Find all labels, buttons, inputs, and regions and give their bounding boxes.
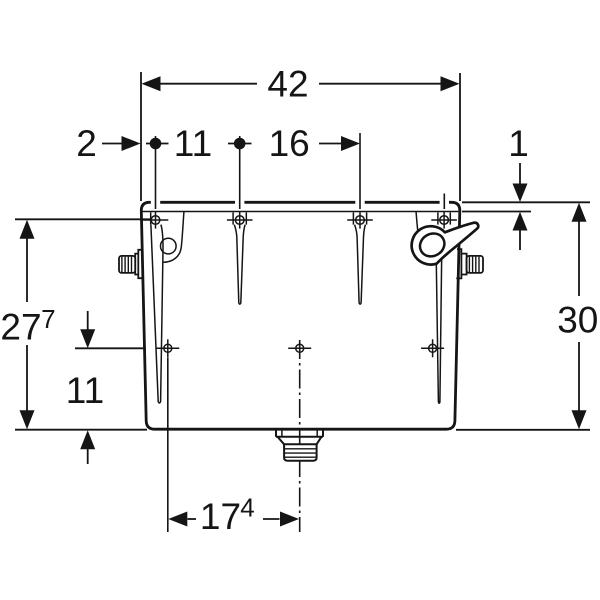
water inlet bolt left [119, 250, 143, 278]
svg-text:42: 42 [267, 64, 308, 105]
rib 3 [355, 225, 366, 305]
dimension 27.7 [15, 218, 150, 220]
dimension 11 left [75, 347, 146, 349]
boss 4 [431, 212, 457, 229]
boss 3 [347, 212, 373, 229]
lower fixing hole center [288, 344, 311, 352]
dimension 42 [141, 72, 460, 201]
bolt right [456, 249, 483, 278]
dimension 30 [456, 429, 590, 431]
flush bend [412, 223, 479, 265]
svg-text:1: 1 [508, 123, 529, 164]
svg-text:11: 11 [174, 123, 212, 164]
bend inner hole [416, 229, 449, 261]
svg-text:30: 30 [557, 300, 598, 341]
dimension 11 top [146, 143, 169, 145]
svg-text:16: 16 [269, 123, 310, 164]
flush valve outlet [276, 429, 323, 460]
lower fixing hole left [156, 339, 179, 357]
rib 2 [234, 225, 245, 305]
svg-text:17: 17 [200, 496, 241, 537]
dimension 2 [102, 143, 122, 145]
boss 2 [227, 212, 253, 229]
rib 1 [151, 225, 163, 403]
dimension 17.4 [167, 358, 169, 533]
lid line gaps [151, 200, 449, 205]
corner gusset left [163, 212, 184, 262]
tank body outline [141, 202, 460, 429]
svg-text:27: 27 [0, 307, 41, 348]
svg-text:4: 4 [240, 493, 254, 523]
boss 1 [143, 212, 169, 229]
center line [299, 340, 301, 532]
rib 4 [436, 230, 442, 403]
svg-text:7: 7 [41, 304, 55, 334]
svg-text:11: 11 [66, 370, 104, 411]
boss 4 stub extension [443, 194, 445, 210]
svg-text:2: 2 [76, 123, 97, 164]
lower fixing hole right [421, 339, 444, 357]
corner gusset right stub [416, 212, 418, 234]
lid bottom line [143, 211, 459, 213]
